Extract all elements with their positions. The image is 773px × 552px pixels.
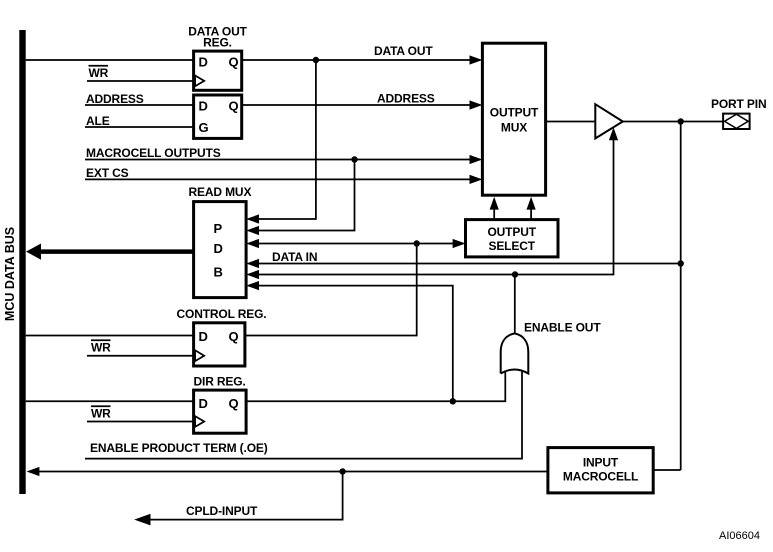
wire ADDRESS to latch D <box>85 104 194 106</box>
wire OR right input from .OE line <box>85 370 522 459</box>
svg-text:MCU DATA BUS: MCU DATA BUS <box>3 227 17 321</box>
wire MACROCELL OUTPUTS to OUTPUT MUX <box>85 155 482 164</box>
wire port pin branch down to DATA IN / input macrocell <box>678 122 684 471</box>
wire WR1 to DATA OUT REG clock <box>87 80 194 82</box>
svg-text:EXT CS: EXT CS <box>86 166 129 180</box>
svg-text:D: D <box>199 99 208 114</box>
svg-text:INPUT: INPUT <box>583 456 619 470</box>
svg-text:B: B <box>214 265 223 280</box>
svg-text:P: P <box>214 221 223 236</box>
MCU DATA BUS bar <box>19 30 25 494</box>
wire WR3 to DIR REG clock <box>87 421 194 423</box>
svg-text:SELECT: SELECT <box>488 239 535 253</box>
flip-flop CONTROL REG <box>194 323 245 366</box>
svg-text:Q: Q <box>229 55 239 70</box>
wire input macrocell left to bus arrow <box>27 467 548 476</box>
wire EXT CS to OUTPUT MUX <box>85 175 482 184</box>
buffer triangle <box>595 104 623 138</box>
svg-text:ALE: ALE <box>86 114 110 128</box>
wire DIR REG Q branch to READ MUX <box>246 281 456 404</box>
latch ADDRESS (D/G) <box>194 95 242 138</box>
svg-text:AI06604: AI06604 <box>719 530 760 542</box>
thick arrow READ MUX to bus <box>26 244 194 260</box>
MCU DATA BUS label <box>3 227 17 321</box>
label WR1 <box>89 66 109 80</box>
svg-text:ENABLE PRODUCT TERM (.OE): ENABLE PRODUCT TERM (.OE) <box>90 441 268 455</box>
label DATA OUT REG. <box>188 25 247 50</box>
wire CPLD-INPUT <box>134 472 342 526</box>
svg-text:Q: Q <box>229 99 239 114</box>
wire bus to DIR REG D <box>26 400 194 402</box>
wire input macrocell right to port pin vertical <box>653 469 681 471</box>
svg-text:READ MUX: READ MUX <box>189 185 252 199</box>
svg-text:MUX: MUX <box>501 121 527 135</box>
flip-flop DATA OUT REG <box>194 51 242 90</box>
svg-text:MACROCELL: MACROCELL <box>563 470 638 484</box>
svg-text:ADDRESS: ADDRESS <box>86 92 144 106</box>
wire bus to DATA OUT REG D <box>26 59 194 61</box>
box INPUT MACROCELL <box>548 448 653 493</box>
svg-text:ADDRESS: ADDRESS <box>377 92 435 106</box>
wire latch Q (ADDRESS) to OUTPUT MUX <box>242 100 483 109</box>
svg-text:D: D <box>199 329 208 344</box>
wire ALE to latch G <box>85 126 194 128</box>
wire OUTPUT MUX to triangle <box>546 121 596 123</box>
svg-text:PORT PIN: PORT PIN <box>711 97 766 111</box>
svg-text:OUTPUT: OUTPUT <box>490 106 539 120</box>
wire enable line (OR out) to READ MUX and triangle enable <box>246 127 618 279</box>
wire DIR REG Q to OR gate left input <box>246 371 505 401</box>
svg-text:ENABLE OUT: ENABLE OUT <box>524 321 601 335</box>
flip-flop DIR REG <box>194 390 247 433</box>
svg-text:D: D <box>199 396 208 411</box>
svg-text:CONTROL REG.: CONTROL REG. <box>177 307 267 321</box>
svg-text:DATA OUT: DATA OUT <box>374 44 433 58</box>
label WR3 <box>91 406 111 420</box>
svg-text:DIR REG.: DIR REG. <box>194 375 246 389</box>
OR gate ENABLE OUT <box>501 333 529 373</box>
wire WR2 to CONTROL REG clock <box>87 355 194 357</box>
wire triangle to port pin <box>623 118 723 124</box>
box OUTPUT SELECT <box>466 220 559 257</box>
svg-text:WR: WR <box>89 66 109 80</box>
svg-text:OUTPUT: OUTPUT <box>487 225 536 239</box>
wire MACROCELL branch to READ MUX <box>246 160 354 236</box>
wire OR output up to enable line <box>514 275 516 334</box>
wire DATA OUT branch to READ MUX P <box>246 60 316 224</box>
svg-text:G: G <box>199 120 209 135</box>
wire CONTROL REG Q to READ MUX and OUTPUT SELECT <box>245 239 466 336</box>
wire DATA IN from port pin branch to READ MUX <box>246 259 681 268</box>
svg-text:WR: WR <box>91 407 111 421</box>
label WR2 <box>91 340 111 354</box>
svg-text:Q: Q <box>229 329 239 344</box>
box READ MUX <box>194 202 247 298</box>
svg-text:WR: WR <box>91 341 111 355</box>
wire OUTPUT SELECT to OUTPUT MUX arrows <box>490 197 536 220</box>
svg-text:MACROCELL OUTPUTS: MACROCELL OUTPUTS <box>86 146 221 160</box>
svg-text:REG.: REG. <box>203 36 232 50</box>
svg-text:D: D <box>199 55 208 70</box>
port pin symbol <box>723 114 750 129</box>
wire bus to CONTROL REG D <box>26 335 194 337</box>
svg-text:DATA IN: DATA IN <box>272 250 317 264</box>
svg-text:Q: Q <box>229 396 239 411</box>
box OUTPUT MUX <box>482 43 545 195</box>
svg-text:CPLD-INPUT: CPLD-INPUT <box>186 504 258 518</box>
wire DATA OUT reg Q to OUTPUT MUX <box>242 55 483 64</box>
svg-text:D: D <box>214 241 223 256</box>
